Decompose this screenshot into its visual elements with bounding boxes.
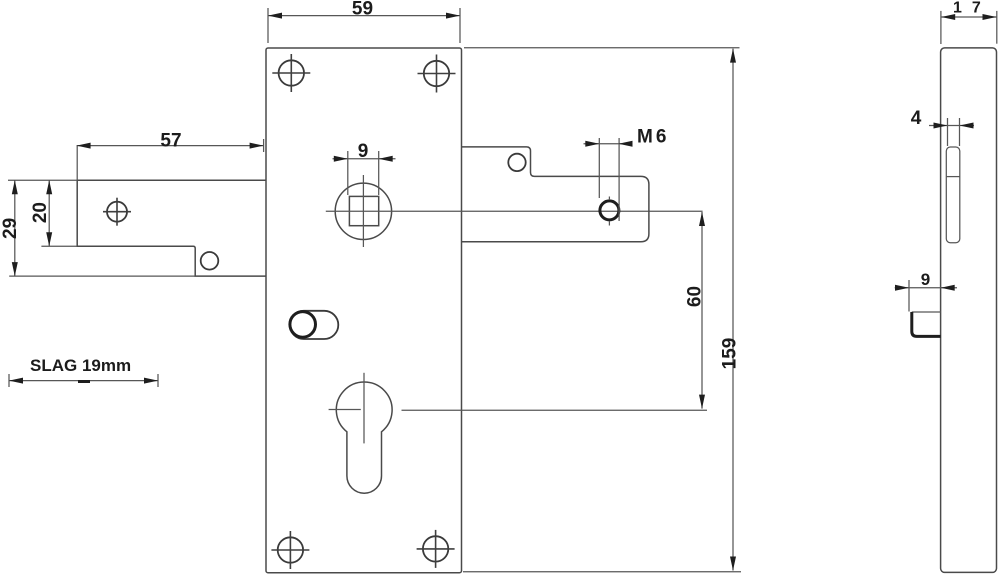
svg-text:M6: M6 (637, 127, 669, 148)
svg-text:4: 4 (911, 108, 922, 129)
svg-text:9: 9 (358, 141, 369, 162)
latch bolt outline (front view) (77, 180, 266, 276)
screw hole top-right (418, 55, 456, 93)
spindle square hole (349, 196, 378, 225)
horizontal centerline through spindle and M6 screw (326, 210, 703, 212)
faceplate outline (266, 48, 462, 573)
keyhole horizontal centerline left tick (329, 409, 361, 411)
svg-text:159: 159 (720, 338, 741, 370)
screw hole bottom-right (417, 530, 455, 568)
svg-text:59: 59 (352, 0, 373, 20)
dimension 159 (overall height) (463, 48, 741, 572)
euro cylinder keyhole (336, 382, 392, 493)
dimension 57 (latch to plate) (77, 131, 264, 181)
lock case arm circle hole (508, 154, 525, 171)
side view bolt (bold) (912, 312, 941, 336)
dimension 9 (side view bolt) (895, 270, 957, 312)
dimension 4 (side view slot) (911, 108, 974, 146)
spindle follower circle (335, 183, 391, 239)
dimension 59 (top) (268, 0, 460, 43)
screw hole bottom-left (271, 531, 309, 569)
svg-text:20: 20 (30, 202, 51, 223)
svg-text:17: 17 (953, 0, 991, 17)
keyhole horizontal line to 60 dimension (402, 409, 708, 411)
SLAG 19mm text (30, 356, 131, 375)
dimension 29 (left) (0, 180, 195, 276)
svg-text:29: 29 (0, 218, 21, 239)
dimension 20 (left) (30, 180, 77, 246)
dimension 60 (right of keyhole) (685, 212, 706, 409)
lock case arm outline (right side) (462, 147, 649, 242)
dimension M6 (584, 127, 670, 222)
dimension 9 (spindle square) (333, 141, 396, 195)
latch hole with cross (103, 198, 131, 226)
side view slot (946, 147, 960, 243)
latch small circle hole (201, 252, 219, 270)
spindle vertical centerline (362, 175, 364, 247)
keyhole vertical centerline (363, 373, 365, 444)
side view faceplate (941, 48, 997, 573)
svg-text:57: 57 (160, 131, 181, 152)
svg-text:SLAG 19mm: SLAG 19mm (30, 356, 131, 375)
svg-text:9: 9 (921, 270, 930, 289)
oval slot bold circle (290, 312, 316, 338)
oval slot (stadium) (290, 311, 339, 339)
M6 screw hole (bold) (600, 197, 619, 226)
svg-text:60: 60 (685, 286, 706, 307)
screw hole top-left (272, 54, 310, 92)
SLAG dimension line (9, 374, 158, 387)
dimension 17 (side view top) (941, 0, 997, 44)
